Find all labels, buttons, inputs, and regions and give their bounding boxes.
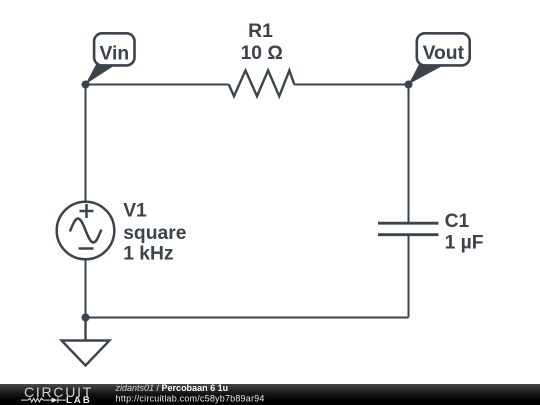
svg-text:LAB: LAB [66, 395, 92, 405]
node Vin junction [82, 81, 90, 89]
resistor R1 [229, 70, 294, 96]
CircuitLab logo: schematic glyph (wire, resistor, diode) [21, 398, 66, 403]
wire top-right segment [294, 84, 408, 86]
svg-text:Vin: Vin [99, 43, 129, 64]
wire top-left segment [86, 84, 229, 86]
footer bar [0, 384, 540, 405]
svg-text:zidants01 / Percobaan 6 1u: zidants01 / Percobaan 6 1u [115, 383, 229, 393]
wire bottom segment [86, 317, 409, 319]
net label Vin [86, 33, 135, 84]
wire Vin node down to V1 top [85, 85, 87, 203]
node Vout junction [405, 81, 413, 89]
svg-text:Vout: Vout [423, 43, 465, 64]
svg-text:http://circuitlab.com/c58yb7b8: http://circuitlab.com/c58yb7b89ar94 [116, 394, 265, 404]
ground [62, 318, 110, 366]
capacitor C1 [378, 223, 439, 235]
voltage source V1 [57, 202, 115, 260]
wire Vout node down to C1 top [408, 85, 410, 224]
svg-text:R1: R1 [248, 21, 273, 42]
svg-text:square: square [123, 223, 187, 244]
svg-text:C1: C1 [445, 211, 470, 232]
svg-text:1 µF: 1 µF [445, 232, 484, 253]
net label Vout [409, 33, 470, 84]
node ground junction [82, 314, 90, 322]
wire V1 bottom to ground node [85, 259, 87, 317]
wire C1 bottom to bottom wire [408, 235, 410, 318]
svg-text:10 Ω: 10 Ω [241, 43, 283, 64]
svg-text:V1: V1 [123, 200, 147, 221]
svg-text:1 kHz: 1 kHz [123, 244, 173, 265]
